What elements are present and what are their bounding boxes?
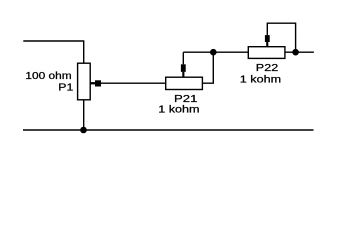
potentiometer P22 body <box>248 47 285 59</box>
svg-text:100 ohm: 100 ohm <box>25 71 71 82</box>
wire P22 right terminal output <box>285 51 314 53</box>
wiper arrow of P22 (points down into body) <box>265 35 270 47</box>
wire P21 right terminal up to node <box>202 52 213 83</box>
wiper arrow of P1 (points left into body) <box>90 80 101 86</box>
node junction P1 bottom rail <box>80 127 87 134</box>
svg-text:P1: P1 <box>58 82 73 93</box>
wire top input horizontal with corner down to P1 top <box>23 41 83 63</box>
wire P21 wiper vertical <box>182 52 184 64</box>
potentiometer P21 body <box>166 77 203 89</box>
wire node rail from P21 wiper to P22 left terminal <box>183 51 248 53</box>
node junction P21 <box>210 49 217 56</box>
wiper arrow of P21 (points down into body) <box>181 64 186 77</box>
node junction P22 <box>292 49 299 56</box>
svg-text:1 kohm: 1 kohm <box>240 74 281 85</box>
svg-text:1 kohm: 1 kohm <box>158 104 199 115</box>
wire bottom rail <box>23 129 314 131</box>
svg-text:P21: P21 <box>174 94 197 105</box>
wire P1 wiper to P21 left terminal <box>101 82 166 84</box>
wire P22 wiper loop to right terminal <box>267 23 295 52</box>
potentiometer P1 body <box>78 63 91 100</box>
svg-text:P22: P22 <box>256 63 278 74</box>
wire P1 bottom lead <box>83 100 85 130</box>
